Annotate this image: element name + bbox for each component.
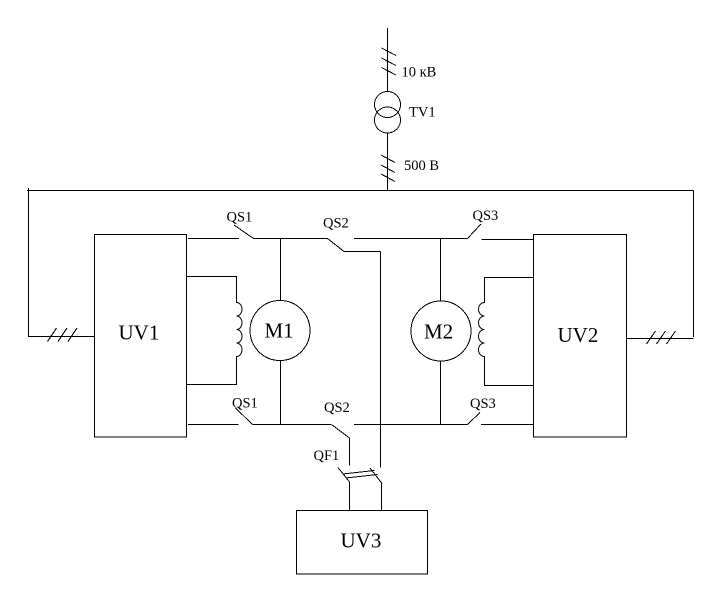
wire: QS3 bottom to UV2: [481, 424, 534, 426]
svg-text:500 В: 500 В: [404, 158, 439, 174]
wire: QS1 bottom to QS2 bottom: [253, 424, 332, 426]
svg-text:10 кВ: 10 кВ: [402, 65, 437, 81]
disconnector QS2 (bottom) blade: [332, 425, 350, 439]
transformer TV1 secondary winding: [375, 107, 401, 133]
svg-text:QS1: QS1: [232, 396, 258, 412]
converter UV2: [534, 235, 627, 438]
inductor winding of UV2 (excitation coil): [479, 278, 534, 386]
wire: QF1 right pole to UV3: [381, 484, 383, 511]
wire: M2 to bottom bus: [440, 361, 442, 425]
svg-text:QS3: QS3: [473, 208, 499, 224]
svg-text:M1: M1: [265, 319, 294, 343]
disconnector QS3 (top) blade: [468, 224, 482, 239]
breaker QF1 right pole blade: [370, 468, 382, 484]
svg-text:QF1: QF1: [314, 448, 340, 464]
wire: QS3 top to UV2: [482, 239, 534, 241]
wire: QS2 top link to center riser: [344, 251, 381, 253]
motor M1: [250, 301, 310, 361]
converter UV3: [297, 511, 428, 575]
break marks on left feed: [48, 328, 78, 342]
wire: M1 to bottom bus: [280, 361, 282, 425]
svg-text:QS2: QS2: [324, 400, 350, 416]
wire: QS1 top to QS2 top: [254, 238, 328, 240]
disconnector QS3 (bottom) blade: [468, 413, 481, 425]
wire: top bus right section (QS2 to QS3): [354, 238, 468, 240]
wire: QS2 bottom down to QF1 left pole: [349, 438, 351, 466]
wire: M2 feeder from top bus: [440, 239, 442, 302]
wire: UV1 to QS1 bottom: [188, 424, 239, 426]
inductor winding of UV1 (excitation coil): [187, 277, 243, 385]
svg-text:UV3: UV3: [341, 529, 382, 553]
wire: left bus drop: [28, 188, 30, 337]
svg-text:M2: M2: [424, 320, 453, 344]
wire: center riser to QF1 right pole: [380, 252, 382, 468]
wire: M1 feeder from top bus: [280, 239, 282, 301]
break marks on 10 kV feeder: [382, 48, 397, 75]
disconnector QS1 (top) blade: [234, 225, 254, 239]
breaker QF1 left pole blade: [338, 468, 350, 483]
svg-text:QS2: QS2: [323, 216, 349, 232]
wire: right bus drop: [693, 191, 695, 338]
breaker QF1 linkage bar (double line): [343, 471, 378, 479]
wire: right feed into UV2: [627, 338, 694, 340]
wire: bottom bus right section (QS2 to QS3): [354, 424, 468, 426]
wire: 10 kV feeder (upper): [387, 28, 389, 92]
wire: left feed into UV1: [28, 336, 95, 338]
wire: UV1 to QS1 top: [188, 238, 239, 240]
wire: TV1 secondary down to 500 V bus: [387, 133, 389, 191]
motor M2: [411, 301, 471, 361]
svg-text:UV2: UV2: [558, 323, 599, 347]
transformer TV1 primary winding: [375, 92, 401, 118]
disconnector QS2 (top) blade: [328, 239, 345, 252]
break marks on right feed: [647, 331, 676, 344]
svg-text:TV1: TV1: [409, 105, 436, 121]
wire: 500 V bus: [27, 190, 694, 192]
wire: QF1 left pole to UV3: [349, 482, 351, 511]
break marks on 500 V line: [381, 155, 395, 182]
svg-text:QS1: QS1: [227, 210, 253, 226]
converter UV1: [95, 235, 187, 438]
svg-text:QS3: QS3: [470, 396, 496, 412]
disconnector QS1 (bottom) blade: [236, 408, 253, 425]
svg-text:UV1: UV1: [119, 321, 160, 345]
